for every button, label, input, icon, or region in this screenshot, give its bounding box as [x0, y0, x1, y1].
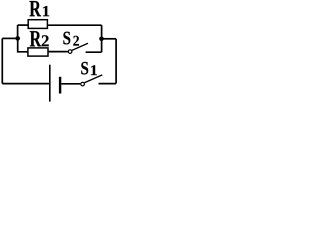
label S2 [63, 32, 79, 46]
resistor R2 [28, 48, 48, 56]
switch S2 pivot circle [68, 50, 72, 54]
wire R2 right lead [48, 51, 68, 53]
battery long plate [49, 65, 51, 102]
resistor R1 [28, 20, 47, 29]
wire R1 left lead [18, 24, 29, 26]
wire battery to S1 [61, 83, 80, 85]
node A junction dot [15, 36, 20, 41]
label S1 [81, 62, 97, 75]
wire right rail [115, 39, 117, 84]
switch S2 blade [72, 43, 88, 50]
wire S2 right lead [86, 51, 102, 53]
wire mid vertical [101, 25, 103, 52]
label R1 [29, 1, 49, 16]
battery short plate [59, 77, 61, 94]
wire S1 right lead [99, 83, 117, 85]
node B junction dot [99, 37, 104, 42]
wire node A down to R2 [18, 38, 28, 51]
wire R1 right lead [47, 24, 101, 26]
wire node A vertical up [17, 25, 19, 38]
wire node A horizontal [2, 37, 17, 39]
wire bottom rail left [2, 83, 50, 85]
wire jog node B to right rail [102, 38, 117, 40]
label R2 [30, 31, 49, 46]
switch S1 pivot circle [81, 82, 85, 86]
switch S1 blade [84, 75, 102, 83]
wire left rail [1, 38, 3, 83]
